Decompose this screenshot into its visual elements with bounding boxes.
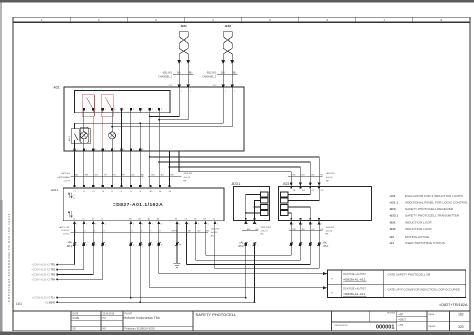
svg-text:1: 1 <box>77 224 78 226</box>
cable label B32-W1 <box>202 72 237 79</box>
svg-text:8: 8 <box>152 109 153 111</box>
svg-text:1: 1 <box>247 224 248 226</box>
svg-text:4: 4 <box>321 224 322 226</box>
svg-text:-B23.1: -B23.1 <box>231 182 241 186</box>
svg-text:1: 1 <box>41 18 43 22</box>
svg-text:4: 4 <box>105 149 106 151</box>
svg-text:8: 8 <box>441 18 443 22</box>
svg-text:17: 17 <box>101 218 103 220</box>
ground symbol <box>174 263 181 267</box>
svg-text:BN: BN <box>221 72 225 75</box>
svg-text:+TR: +TR <box>398 323 403 327</box>
induction loop sensor B32 <box>222 24 236 87</box>
svg-text:-B32: -B32 <box>224 24 231 28</box>
svg-text:-B31-W1: -B31-W1 <box>162 72 172 75</box>
photocell receiver B23 <box>278 182 371 221</box>
wire bundle A21 to A01.1 <box>75 151 141 186</box>
svg-text:-B23-W1: -B23-W1 <box>184 173 193 175</box>
svg-text:=D827-A01.1/162A: =D827-A01.1/162A <box>113 202 163 208</box>
svg-text:INDUCTION LOOP: INDUCTION LOOP <box>405 227 432 231</box>
svg-text:BU: BU <box>189 72 193 75</box>
svg-text:+A21.1-W1: +A21.1-W1 <box>58 226 70 229</box>
svg-text:1: 1 <box>86 109 87 111</box>
svg-text:-A01.1: -A01.1 <box>50 188 59 192</box>
svg-text:NAME: NAME <box>73 317 80 320</box>
A01.1 bottom pins <box>73 217 218 225</box>
svg-text:DC4 PL5E +AL/TK57: DC4 PL5E +AL/TK57 <box>343 273 366 276</box>
svg-text:WH: WH <box>85 174 89 176</box>
svg-text:8: 8 <box>161 244 162 246</box>
svg-text:8: 8 <box>142 149 143 151</box>
svg-text:GE: GE <box>73 329 77 331</box>
svg-text:3: 3 <box>95 244 96 246</box>
logic module A01.1 <box>50 188 224 221</box>
svg-text:7: 7 <box>383 18 385 22</box>
svg-text:16: 16 <box>92 218 94 220</box>
svg-text:BU: BU <box>132 174 135 176</box>
svg-text:320: 320 <box>458 325 464 329</box>
U-route wires to B23 bottom <box>187 218 321 269</box>
svg-text:A3: A3 <box>157 217 159 220</box>
svg-text:3: 3 <box>198 224 199 226</box>
cable label A21-W1 <box>57 172 144 183</box>
svg-text:2: 2 <box>86 149 87 151</box>
svg-text:BN: BN <box>177 72 181 75</box>
svg-text:=PP: =PP <box>398 312 403 316</box>
svg-text:2: 2 <box>189 224 190 226</box>
wire stub to terminal 1 <box>74 140 76 150</box>
A01.1 top terminals <box>73 185 171 193</box>
svg-text:BN: BN <box>75 174 78 176</box>
A21 bottom terminals <box>73 148 143 151</box>
svg-text:MUTING ACTIVE: MUTING ACTIVE <box>405 235 429 239</box>
svg-text:HO: HO <box>103 318 107 320</box>
svg-text:6: 6 <box>142 224 143 226</box>
svg-text:4: 4 <box>117 134 118 136</box>
svg-text:+CONV-AL20-X2:TL+: +CONV-AL20-X2:TL+ <box>32 297 56 300</box>
svg-text:4: 4 <box>89 134 90 136</box>
svg-text:2: 2 <box>98 18 100 22</box>
svg-text:7: 7 <box>133 149 134 151</box>
cable label B23-W2 right <box>289 227 335 236</box>
wires A01.1 down <box>75 224 215 302</box>
page bottom shadow bar <box>0 332 474 335</box>
indicator lamp H4 switching status <box>109 113 119 150</box>
cable label B23-W1 left <box>148 173 193 183</box>
terminal strip X8.1 <box>66 241 182 248</box>
evaluator unit A21 <box>53 86 244 151</box>
bus wires A21 to B23 <box>149 113 319 187</box>
svg-text:6: 6 <box>124 149 125 151</box>
svg-text:2: 2 <box>86 244 87 246</box>
svg-text:TECHNIS: TECHNIS <box>387 313 396 315</box>
connector XF2 <box>169 84 192 92</box>
svg-text:USED SWITCHING STATUS: USED SWITCHING STATUS <box>405 241 445 245</box>
svg-text:1: 1 <box>77 149 78 151</box>
svg-text:GN: GN <box>170 174 174 176</box>
A21 inner terminal strip <box>75 91 171 113</box>
svg-text:+CONV-AL20-X2:TR2: +CONV-AL20-X2:TR2 <box>32 269 56 272</box>
svg-text:GN: GN <box>95 174 99 176</box>
svg-text:4: 4 <box>114 109 115 111</box>
svg-text:BU: BU <box>302 174 305 176</box>
svg-text:-B23: -B23 <box>283 182 290 186</box>
svg-text:4x0.25: 4x0.25 <box>184 177 191 179</box>
page left shadow strip <box>0 3 2 332</box>
cable label B31-W1 <box>158 72 193 79</box>
page top shadow bar <box>0 0 474 3</box>
svg-text:+CONV-AL20-X2:TR1: +CONV-AL20-X2:TR1 <box>32 264 56 267</box>
svg-text:L3: L3 <box>93 191 95 193</box>
svg-text:4: 4 <box>105 224 106 226</box>
svg-text:14: 14 <box>73 218 75 220</box>
svg-text:-A21: -A21 <box>53 86 60 90</box>
svg-text:GY: GY <box>320 174 324 176</box>
svg-text:-A21: -A21 <box>389 194 396 198</box>
red wire from contact 1 <box>92 116 94 149</box>
message cross reference table <box>328 270 466 298</box>
svg-text:-H3: -H3 <box>389 235 394 239</box>
svg-text:4: 4 <box>105 244 106 246</box>
svg-text:8: 8 <box>161 224 162 226</box>
svg-text:15: 15 <box>82 218 84 220</box>
svg-text:INDUCTION LOOP: INDUCTION LOOP <box>405 221 432 225</box>
svg-text:m: m <box>331 292 333 295</box>
red wire from contact 2 <box>102 116 104 149</box>
svg-text:CHANNEL 2: CHANNEL 2 <box>202 76 217 79</box>
internal routing wires A21 <box>75 87 233 150</box>
svg-text:ADDITIONAL PANEL FOR LOGIC CON: ADDITIONAL PANEL FOR LOGIC CONTROL <box>405 201 468 205</box>
svg-text:1: 1 <box>77 244 78 246</box>
svg-text:BU: BU <box>197 231 200 233</box>
svg-text:-X5.1: -X5.1 <box>323 245 330 248</box>
B23 top pins <box>290 182 324 191</box>
svg-text:3: 3 <box>95 149 96 151</box>
svg-text:-B31: -B31 <box>180 24 187 28</box>
svg-text:PLANT:: PLANT: <box>125 312 133 315</box>
svg-text:=D827+TR/162A: =D827+TR/162A <box>439 303 468 307</box>
svg-text:Pelabuhan, 9133681/A 10001: Pelabuhan, 9133681/A 10001 <box>125 328 156 331</box>
svg-text:BU: BU <box>256 229 259 231</box>
ruler column ticks and numbers <box>41 17 443 22</box>
svg-text:-B32: -B32 <box>389 227 396 231</box>
terminal X5.2 <box>238 241 258 248</box>
svg-text:6: 6 <box>142 244 143 246</box>
svg-text:Holcim Indonesia Tbk: Holcim Indonesia Tbk <box>124 316 161 320</box>
svg-text:GY: GY <box>312 229 316 231</box>
inner terminals row <box>83 108 162 113</box>
svg-text:7: 7 <box>152 224 153 226</box>
svg-text:PAGES: PAGES <box>429 325 437 328</box>
svg-text:BN: BN <box>247 229 250 231</box>
svg-text:2: 2 <box>256 224 257 226</box>
svg-text:-B23.1: -B23.1 <box>389 214 398 218</box>
svg-text:LAPPKABEL: LAPPKABEL <box>57 176 70 179</box>
svg-text:DATE: DATE <box>73 312 79 315</box>
svg-text:A1: A1 <box>150 190 152 193</box>
svg-text:162: 162 <box>458 313 464 317</box>
svg-text:I2: I2 <box>121 191 123 193</box>
svg-text:2: 2 <box>257 244 258 246</box>
svg-text:-B32-W1: -B32-W1 <box>206 72 216 75</box>
svg-text:-B23.1-W1: -B23.1-W1 <box>261 227 272 229</box>
svg-text:1: 1 <box>179 224 180 226</box>
svg-text:EVALUATOR FOR 2 INDUCTION LOOP: EVALUATOR FOR 2 INDUCTION LOOPS <box>405 194 463 198</box>
svg-text:RD: RD <box>141 174 145 176</box>
svg-text:BU: BU <box>233 72 237 75</box>
svg-text:+A21-W1: +A21-W1 <box>61 172 71 175</box>
A01.1 internal arrows top <box>68 193 75 200</box>
svg-text:+AL: +AL <box>323 241 328 244</box>
svg-text:1: 1 <box>248 244 249 246</box>
svg-text:GNYE: GNYE <box>171 231 178 233</box>
svg-text:6: 6 <box>326 18 328 22</box>
svg-text:000001: 000001 <box>376 324 395 330</box>
svg-text:+CONV-AL20-X2:TR3: +CONV-AL20-X2:TR3 <box>32 274 56 277</box>
svg-text:I4: I4 <box>140 191 142 193</box>
svg-text:-B31: -B31 <box>389 221 396 225</box>
indicator lamp H3 muting active <box>80 113 90 150</box>
svg-text:CHANNEL 1: CHANNEL 1 <box>158 76 173 79</box>
svg-text:SAFETY PHOTOCELL TRANSMITTER: SAFETY PHOTOCELL TRANSMITTER <box>405 214 460 218</box>
svg-text:REVISION NO.: REVISION NO. <box>335 325 349 327</box>
svg-text:3: 3 <box>95 224 96 226</box>
svg-text:=D827: =D827 <box>398 318 406 322</box>
svg-text:OLFLEX: OLFLEX <box>61 230 70 232</box>
svg-text:5: 5 <box>133 244 134 246</box>
svg-text:9: 9 <box>161 109 162 111</box>
svg-text:BN: BN <box>151 174 154 176</box>
cable label B23.1-W1 <box>242 227 272 236</box>
svg-text:-X5.2: -X5.2 <box>238 245 245 248</box>
svg-text:12x0.5: 12x0.5 <box>63 234 70 236</box>
svg-text:BN: BN <box>293 229 296 231</box>
svg-text:GATE UP IF CONVEYOR INDUCTION: GATE UP IF CONVEYOR INDUCTION LOOP OCCUP… <box>388 288 460 292</box>
off page arrows TR1-TR4 <box>32 264 103 282</box>
svg-text:7x0.75: 7x0.75 <box>63 181 70 183</box>
svg-text:BU: BU <box>302 229 305 231</box>
svg-text:24: 24 <box>213 218 215 220</box>
svg-text:A2: A2 <box>159 190 161 193</box>
svg-text:SAFETY PHOTOCELL: SAFETY PHOTOCELL <box>196 312 238 317</box>
svg-text:5: 5 <box>269 18 271 22</box>
svg-text:L2: L2 <box>83 191 85 193</box>
svg-text:4: 4 <box>212 18 214 22</box>
svg-text:2: 2 <box>95 109 96 111</box>
svg-text:25.04.2019: 25.04.2019 <box>103 313 115 315</box>
svg-text:4: 4 <box>207 224 208 226</box>
connector XF3 <box>213 84 236 92</box>
svg-text:7: 7 <box>152 244 153 246</box>
muting contact red highlight 2 <box>101 95 113 117</box>
svg-text:7: 7 <box>142 109 143 111</box>
wires to message table <box>150 272 328 289</box>
svg-text:-B23-W2: -B23-W2 <box>326 227 335 229</box>
svg-text:A4: A4 <box>148 217 150 220</box>
svg-text:-X5.2:1: -X5.2:1 <box>261 230 269 232</box>
induction loop sensor B31 <box>178 24 192 87</box>
muting contact red highlight 1 <box>82 95 94 117</box>
svg-text:=D828+AL-A11: =D828+AL-A11 <box>343 292 365 296</box>
svg-text:4x0.25: 4x0.25 <box>211 232 218 234</box>
svg-text:4x0.25: 4x0.25 <box>326 177 333 179</box>
svg-text:COPYRIGHT ACCORDING TO DIN ISO: COPYRIGHT ACCORDING TO DIN ISO 16016 <box>7 213 11 302</box>
B23 bottom pin numbers <box>293 224 322 226</box>
svg-text:3: 3 <box>312 224 313 226</box>
svg-text:SAFETY PHOTOCELL RECEIVER: SAFETY PHOTOCELL RECEIVER <box>405 207 454 211</box>
A01.1 internal arrows bottom <box>68 211 72 218</box>
X5.2 wires down to TL+ and M24V <box>245 246 256 303</box>
svg-text:GATE SAFETY PHOTOCELL 5M: GATE SAFETY PHOTOCELL 5M <box>388 272 431 276</box>
svg-text:I1: I1 <box>111 191 113 193</box>
svg-text:2: 2 <box>302 224 303 226</box>
svg-text:-B23-W1: -B23-W1 <box>326 173 335 175</box>
svg-text:-B23-W2: -B23-W2 <box>211 229 220 231</box>
svg-text:L4: L4 <box>102 191 104 193</box>
additional logic panel A21.1 <box>68 129 91 143</box>
svg-text:=D828+AL-A11: =D828+AL-A11 <box>343 278 365 282</box>
svg-text:-X2:M24V: -X2:M24V <box>44 301 55 304</box>
svg-text:-H4: -H4 <box>389 241 394 245</box>
svg-text:-A21.1: -A21.1 <box>389 201 398 205</box>
wire M24V <box>44 301 254 304</box>
svg-text:+AL: +AL <box>239 241 244 244</box>
svg-text:I3: I3 <box>130 191 132 193</box>
svg-text:161: 161 <box>16 302 22 306</box>
svg-text:-A21.1: -A21.1 <box>68 135 71 142</box>
title block <box>13 311 470 331</box>
svg-text:5: 5 <box>114 149 115 151</box>
svg-text:BN: BN <box>292 174 295 176</box>
svg-text:-X8.1: -X8.1 <box>66 245 73 248</box>
svg-text:DC4 PL5E +AL/TK57: DC4 PL5E +AL/TK57 <box>343 287 366 290</box>
svg-text:PAGE: PAGE <box>429 313 435 316</box>
svg-text:4x0.25: 4x0.25 <box>326 230 333 232</box>
svg-text:5: 5 <box>217 224 218 226</box>
B23.1 bottom pins <box>244 218 257 226</box>
svg-text:5: 5 <box>133 224 134 226</box>
svg-text:2: 2 <box>86 224 87 226</box>
legend list <box>389 194 468 245</box>
cable label A21.1-W1 <box>58 226 220 238</box>
svg-text:6: 6 <box>133 109 134 111</box>
svg-text:GY: GY <box>113 174 117 176</box>
svg-text:BU: BU <box>161 174 164 176</box>
wire TL+ <box>32 297 246 300</box>
cable label B23-W1 top <box>288 173 335 183</box>
svg-text:3: 3 <box>105 109 106 111</box>
svg-text:3: 3 <box>155 18 157 22</box>
svg-text:+AL: +AL <box>67 241 72 244</box>
svg-text:HO: HO <box>103 329 107 331</box>
svg-text:5: 5 <box>124 109 125 111</box>
svg-text:1: 1 <box>293 224 294 226</box>
svg-text:m: m <box>331 278 333 281</box>
terminal X5.1 <box>290 241 330 248</box>
svg-text:L1: L1 <box>74 191 76 193</box>
svg-text:BN: BN <box>206 231 209 233</box>
photocell transmitter B23.1 <box>231 182 270 221</box>
svg-text:+CONV-AL20-X2:TR4: +CONV-AL20-X2:TR4 <box>32 278 56 281</box>
svg-text:L+: L+ <box>74 195 76 197</box>
svg-text:-B23: -B23 <box>389 207 396 211</box>
